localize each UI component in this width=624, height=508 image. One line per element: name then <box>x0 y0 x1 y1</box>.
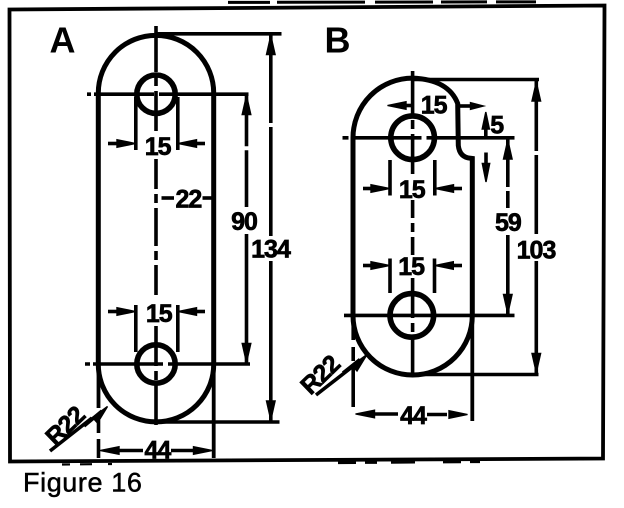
dim A 134: bottom extension line <box>157 420 280 424</box>
svg-text:44: 44 <box>400 402 427 430</box>
hole A bottom <box>137 345 175 383</box>
dim B mid 15: left arrow <box>363 185 390 193</box>
dim B mid 15: right arrow <box>435 185 462 193</box>
plate B outline with stepped top-right corner <box>353 78 472 375</box>
dim A bottom 15: extension line left <box>134 305 138 352</box>
leader R22 (A): arrow <box>84 407 108 427</box>
dim A 90: dimension line lower part <box>245 234 249 363</box>
dim B 103: down arrow <box>532 354 541 373</box>
dim B top 15: right arrow <box>460 103 484 110</box>
svg-text:44: 44 <box>144 436 171 464</box>
dim B 103: dimension line upper part <box>534 81 538 234</box>
dim A bottom 15: left arrow <box>108 308 136 316</box>
dim B 103: bottom extension line <box>413 373 539 377</box>
dim B 44: left extension line <box>351 318 355 421</box>
dim A 134: up arrow <box>267 36 276 55</box>
dim B mid 15: extension line left <box>388 160 392 196</box>
svg-text:15: 15 <box>146 300 173 328</box>
scan noise under bottom border <box>338 462 480 463</box>
dim B 44: right extension line <box>470 315 474 421</box>
leader R22 (B): arrow <box>343 355 367 374</box>
svg-text:15: 15 <box>145 133 172 161</box>
svg-text:B: B <box>325 20 351 61</box>
svg-text:103: 103 <box>517 237 556 265</box>
dim B 103: dimension line lower part <box>534 261 538 373</box>
svg-text:15: 15 <box>398 253 425 281</box>
dim B mid 15: extension line right <box>433 160 437 196</box>
svg-text:15: 15 <box>399 176 426 204</box>
dim B 103: up arrow <box>532 82 541 101</box>
plate A bottom hole horizontal centerline <box>85 362 250 366</box>
dim B 59: dimension line upper part <box>506 139 510 208</box>
dim A top 15: left arrow <box>108 140 136 148</box>
svg-text:22: 22 <box>175 185 201 213</box>
dim A 134: dimension line lower part <box>269 261 273 421</box>
svg-text:Figure 16: Figure 16 <box>23 468 142 498</box>
leader R22 (A): underline <box>50 418 92 451</box>
svg-text:A: A <box>50 20 76 61</box>
dim B 103: top extension line <box>414 78 539 82</box>
dim B 5: up arrow <box>482 112 489 138</box>
dim A 22: left dash <box>162 196 175 200</box>
dim A bottom 15: right arrow <box>178 308 205 316</box>
dim B 44: left arrow <box>356 410 399 418</box>
scan specks below bottom border left <box>62 463 112 466</box>
svg-text:90: 90 <box>231 208 257 236</box>
dim A top 15: extension line left <box>134 97 138 150</box>
dim A 44: right extension line <box>212 364 216 458</box>
dim A 134: top extension line <box>157 32 282 36</box>
plate A top hole horizontal centerline <box>87 92 249 96</box>
dim B 44: right arrow <box>427 411 468 419</box>
hole B top <box>391 116 435 160</box>
plate A vertical centerline <box>154 26 158 133</box>
dim A 134: dimension line upper part <box>269 35 273 236</box>
hole A top <box>137 75 175 113</box>
dim A 134: down arrow <box>267 401 276 420</box>
dim B low 15: extension line left <box>388 259 392 294</box>
svg-text:15: 15 <box>421 92 448 120</box>
dim B 5: down arrow <box>482 153 489 183</box>
dim A top 15: right arrow <box>178 140 205 148</box>
dim A 22: right dash <box>203 196 213 200</box>
scan noise streak along top border <box>228 0 560 4</box>
hole B bottom <box>390 294 434 338</box>
dim B low 15: extension line right <box>433 259 437 294</box>
dim A 90: up arrow <box>242 96 251 115</box>
plate A outline (stadium) <box>98 35 213 422</box>
plate B vertical centerline <box>411 71 415 179</box>
dim A 44: right arrow <box>171 447 213 455</box>
plate B bottom hole horizontal centerline <box>344 314 515 318</box>
dim B low 15: left arrow <box>363 262 390 270</box>
dim A 90: down arrow <box>242 344 251 363</box>
dim B 59: up arrow <box>504 140 513 159</box>
svg-text:59: 59 <box>495 209 521 237</box>
plate B top hole horizontal centerline <box>343 136 515 140</box>
dim A bottom 15: extension line right <box>176 305 180 352</box>
dim A top 15: extension line right <box>176 97 180 150</box>
dim B 59: down arrow <box>504 295 513 314</box>
dim B top 15: left arrow <box>388 102 413 110</box>
dim B low 15: right arrow <box>435 262 462 270</box>
svg-text:5: 5 <box>490 112 504 140</box>
dim A 90: dimension line upper part <box>245 94 249 207</box>
dim A 44: left arrow <box>100 447 143 455</box>
leader R22 (B): underline <box>316 367 352 395</box>
dim A 44: left extension line <box>97 364 101 408</box>
svg-text:134: 134 <box>251 236 291 264</box>
dim B 59: dimension line lower part <box>506 235 510 314</box>
